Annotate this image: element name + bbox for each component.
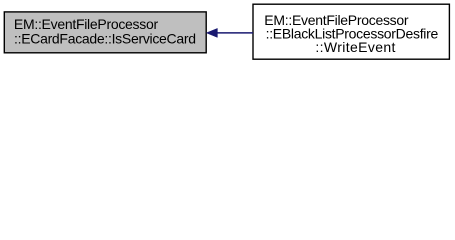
arrowhead pointing at IsServiceCard node bbox=[206, 28, 217, 37]
node EM::EventFileProcessor::ECardFacade::IsServiceCard (current node, grey fill) bbox=[4, 12, 206, 53]
wire: edge shaft bbox=[217, 32, 253, 34]
node EM::EventFileProcessor::EBlackListProcessorDesfire::WriteEvent (caller node, white fill) bbox=[253, 4, 449, 59]
edge WriteEvent -> IsServiceCard (midnightblue call arrow) bbox=[206, 28, 253, 37]
svg-text:::ECardFacade::IsServiceCard: ::ECardFacade::IsServiceCard bbox=[14, 30, 196, 46]
svg-text:::WriteEvent: ::WriteEvent bbox=[315, 39, 395, 55]
